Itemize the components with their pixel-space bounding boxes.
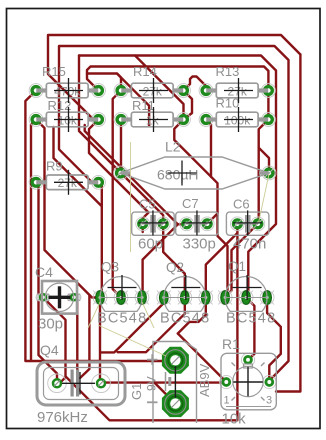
potentiometer R1 silk <box>221 336 276 428</box>
svg-text:27k: 27k <box>58 176 78 190</box>
origin R14 <box>139 78 168 103</box>
capacitor C4 (trimmer style) <box>35 264 77 333</box>
wire thicket floater <box>54 127 102 206</box>
svg-text:1k: 1k <box>146 113 160 127</box>
wire H3 left leg down to C5 right pad <box>79 56 163 224</box>
svg-text:R14: R14 <box>133 64 157 79</box>
resistor R9 <box>36 159 98 191</box>
pads R15 <box>29 84 43 98</box>
svg-text:C4: C4 <box>35 264 53 280</box>
svg-text:R10: R10 <box>216 96 240 111</box>
wire R10 right pad to C6 right pad <box>258 120 269 224</box>
airwire <box>142 302 154 328</box>
airwire <box>130 142 132 252</box>
pads R9 <box>29 175 43 189</box>
svg-text:BC548: BC548 <box>160 311 210 327</box>
origin R11 <box>139 107 168 132</box>
pads R13 <box>199 84 213 98</box>
svg-text:470n: 470n <box>233 236 266 253</box>
pads Q2 <box>157 291 171 305</box>
wire to pot left pad <box>178 334 227 383</box>
svg-text:27k: 27k <box>143 84 163 98</box>
wire Q2 left pad to crystal right pad <box>101 298 164 353</box>
wire C6 right pad to Q1 left pad <box>225 224 258 297</box>
svg-text:10k: 10k <box>222 411 247 428</box>
resistor R12 <box>36 98 98 127</box>
wire L2 right pad stub <box>259 148 269 173</box>
svg-text:C6: C6 <box>233 197 250 212</box>
wire R13 right pad to R10 right pad <box>267 91 269 120</box>
svg-text:470k: 470k <box>54 84 81 98</box>
svg-text:BC548: BC548 <box>97 311 147 327</box>
origin C4 <box>49 286 71 308</box>
battery G1 silk <box>129 342 212 424</box>
wire C6 left net bottom rail to crystal left pad <box>60 233 237 420</box>
capacitor C6 <box>226 197 269 253</box>
crystal Q4 silk <box>37 342 125 426</box>
transistor Q1 silk <box>225 259 276 327</box>
svg-text:AB9V: AB9V <box>197 363 212 397</box>
svg-text:C5: C5 <box>139 197 156 212</box>
wire branch down to Q3 right pad <box>143 224 178 297</box>
pads C5 <box>136 217 150 231</box>
wire crystal right pad to pot left pad <box>101 381 226 383</box>
svg-text:R1: R1 <box>222 336 240 352</box>
pads L2 <box>114 166 128 180</box>
pads C4 <box>36 294 50 301</box>
wire Q2 right pad jog <box>178 298 206 334</box>
origin Q2 <box>171 275 200 300</box>
pads R1 pot <box>220 375 233 388</box>
svg-text:Q4: Q4 <box>40 342 59 358</box>
svg-text:G1: G1 <box>129 383 144 400</box>
pads Q4 crystal <box>48 374 67 393</box>
svg-text:R13: R13 <box>216 64 240 79</box>
wire under crystal 2 <box>74 297 77 388</box>
airwire <box>98 325 166 356</box>
origin C7 <box>182 210 211 235</box>
pads R14 <box>114 84 128 98</box>
svg-text:L2: L2 <box>165 139 181 155</box>
svg-text:Q3: Q3 <box>101 260 119 275</box>
svg-text:R12: R12 <box>48 98 72 113</box>
wire H3 branch to R10 left pad <box>135 56 184 120</box>
pads Q3 <box>93 291 107 305</box>
origin R13 <box>224 78 253 103</box>
wire battery bottom pad diag <box>154 383 175 404</box>
svg-text:10k: 10k <box>58 113 78 127</box>
origin R1 <box>233 367 262 397</box>
airwire <box>259 174 270 223</box>
wire Q2 center pad diag to junction <box>118 298 185 353</box>
pads Q1 <box>218 291 232 305</box>
wire net H1 top loop to R12 right pad <box>48 35 300 120</box>
resistor R13 <box>206 64 268 98</box>
resistor R11 <box>121 98 183 127</box>
origin G1 <box>174 366 176 398</box>
origin Q3 <box>108 275 137 300</box>
wire R10 left pad down to junction <box>206 120 211 177</box>
wire C4 right pad down <box>43 297 66 377</box>
wire diag to C7 left pad <box>85 125 187 224</box>
svg-text:100k: 100k <box>224 113 251 127</box>
svg-text:C7: C7 <box>182 196 199 211</box>
pads R12 <box>29 113 43 127</box>
wire Q1 right pad to pot right pad <box>267 298 281 383</box>
wire R12 left pad to left rail <box>31 120 36 362</box>
wire R9 left pad to crystal left pad <box>36 182 57 383</box>
origin R9 <box>54 170 83 195</box>
wire branch under R11 <box>117 74 149 127</box>
airwire <box>88 302 100 328</box>
svg-text:BC548: BC548 <box>226 311 276 327</box>
wire Q1 center pad to pot top pad <box>246 298 254 360</box>
origin R12 <box>54 107 83 132</box>
wire R11 left pad to L2 left pad <box>120 120 122 174</box>
wire C6 left pad to Q2 right pad <box>206 224 238 298</box>
pads C6 <box>231 217 245 231</box>
inductor L2 <box>121 139 270 190</box>
wire C5 left pad stub <box>141 224 143 232</box>
wire H4 R15 right pad to R13 right pad <box>87 67 268 91</box>
capacitor C7 <box>176 196 219 253</box>
pads G1 battery <box>162 347 189 374</box>
wire Q3 left pad to crystal right pad <box>100 298 101 384</box>
svg-text:Q2: Q2 <box>166 260 184 275</box>
origin Q1 <box>233 275 262 300</box>
wire C5 right pad to Q2 center pad <box>163 224 185 298</box>
svg-text:R15: R15 <box>42 64 66 79</box>
origin R10 <box>224 107 253 132</box>
wire under crystal 3 <box>80 295 89 378</box>
svg-text:680µH: 680µH <box>157 167 199 183</box>
svg-text:976kHz: 976kHz <box>37 409 88 426</box>
wire branch to R14 left pad <box>87 74 121 91</box>
transistor Q3 silk <box>97 260 147 327</box>
svg-text:9V: 9V <box>145 376 159 391</box>
svg-text:1: 1 <box>224 395 230 407</box>
capacitor C5 <box>132 197 175 253</box>
resistor R14 <box>121 64 183 98</box>
wire net H3 corner to Q1 center pad <box>79 56 276 298</box>
svg-text:330p: 330p <box>183 236 216 253</box>
wire R9 right pad down to Q3 left pad <box>99 182 102 296</box>
svg-text:3: 3 <box>266 395 272 407</box>
pads R10 <box>199 113 213 127</box>
wire R14 left pad down to Q3 center pad <box>113 91 121 298</box>
wire right outer rail down to pot <box>276 55 300 392</box>
svg-text:Q1: Q1 <box>228 259 246 274</box>
wire R14 right pad to R11 right pad <box>184 91 193 120</box>
transistor Q2 silk <box>160 260 210 327</box>
svg-text:R11: R11 <box>132 98 155 113</box>
origin L2 <box>168 161 197 186</box>
pads R11 <box>114 113 128 127</box>
resistor R15 <box>36 64 98 98</box>
wire net H2 R9 right pad over top to pot right pad <box>59 46 289 381</box>
wire R15 left pad to left rail to battery top pad <box>25 91 175 362</box>
svg-text:R9: R9 <box>46 159 63 174</box>
wire R12 right pad to C5 left pad <box>89 120 149 224</box>
origin Q4 <box>62 372 95 395</box>
svg-text:30p: 30p <box>38 316 63 333</box>
wire branch to C7 right pad <box>207 214 217 224</box>
origin C5 <box>138 210 167 235</box>
origin C6 <box>233 210 262 235</box>
wire thicket down to Q3 left pad <box>36 120 100 298</box>
wire R11 right pad to Q1 left pad <box>174 120 227 298</box>
resistor R10 <box>206 96 268 128</box>
pads C7 <box>180 217 194 231</box>
svg-text:60p: 60p <box>138 236 163 253</box>
origin R15 <box>54 78 83 103</box>
wire R14 right pad to R13 left pad <box>184 77 207 91</box>
